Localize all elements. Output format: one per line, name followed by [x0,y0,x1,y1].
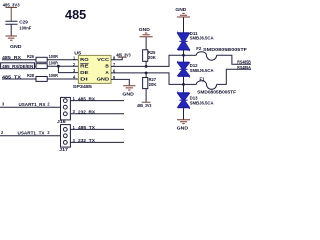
wire B line [111,55,184,66]
TVS diode D12 [177,55,213,84]
wire USART1_TX [0,135,61,137]
pin number 3 [73,68,76,73]
svg-text:J17: J17 [59,147,69,152]
svg-text:GND: GND [10,44,22,49]
svg-text:20K: 20K [148,55,156,60]
ground (top of diode chain, inverted) [175,7,190,32]
power port 485_3V3 (below R27) [137,102,152,108]
svg-text:SMBJ6.5CA: SMBJ6.5CA [190,35,214,40]
wire B to fuse [184,54,197,56]
svg-text:R26: R26 [27,54,35,59]
svg-text:A: A [105,70,108,75]
svg-text:RO: RO [80,57,89,62]
svg-text:485_3V3: 485_3V3 [137,103,152,108]
svg-text:485_3V3: 485_3V3 [116,52,131,57]
TVS diode D11 [177,31,213,56]
wire pin8 [111,57,122,59]
net label 485_TX (J17) [73,125,96,130]
fuse F2 [196,46,247,60]
wire row2 to pin2 [47,65,78,67]
wire port to R24 [35,65,37,67]
title 485 [65,7,86,22]
resistor R27 [143,73,157,102]
pin number 7 [113,62,116,67]
svg-text:SP3485: SP3485 [73,84,93,89]
pin number 6 [113,68,116,73]
pin number 8 [113,55,116,60]
net label 485_RX (J16) [73,96,96,101]
net label RS485B [237,60,251,65]
wire J17 pin3 to 232_TX [70,141,124,143]
junction node A/R27 [145,72,148,75]
wire row1 left [2,59,36,61]
junction node row2 [57,65,60,68]
net label 232_TX [73,138,96,143]
wire row3 to pin4 [47,78,78,80]
svg-text:SMD0805B005TF: SMD0805B005TF [197,90,237,95]
wire fuse F2 to RS485B [217,55,251,64]
power port 485_3V3 (pin 8) [116,52,131,57]
net label USART1_TX row [1,130,50,135]
wire J16 pin3 to 232_RX [70,113,124,115]
svg-text:USART1_RX: USART1_RX [19,102,46,107]
svg-text:U5: U5 [74,50,81,55]
svg-text:USART1_TX: USART1_TX [18,131,45,136]
wire pin5 to ground [111,79,129,85]
pin number 1 [73,55,76,60]
resistor R26 [27,54,58,62]
svg-text:232_RX: 232_RX [78,110,95,115]
wire A to fuse [184,83,197,85]
svg-text:GND: GND [122,91,134,96]
pin number 2 [73,62,76,67]
resistor R25 [143,50,156,67]
pin number 4 [73,75,76,80]
wire USART1_RX [0,106,61,108]
net label 232_RX [73,109,96,114]
fuse F1 [196,76,236,94]
svg-text:R28: R28 [27,73,35,78]
wire row1 to pin1 [47,59,78,61]
wire fuse F1 to RS485A [217,69,251,84]
svg-text:GND: GND [139,27,151,32]
svg-text:RE: RE [80,64,89,69]
resistor R24 [36,60,58,68]
svg-text:GND: GND [177,126,189,131]
svg-text:GND: GND [175,7,187,12]
svg-text:100R: 100R [49,54,58,59]
power port 485_3V3 (top left) [3,3,20,22]
ground (above R25, inverted) [139,27,153,50]
junction node B/R25 [145,65,148,68]
svg-text:GND: GND [97,77,109,82]
svg-text:485_RX: 485_RX [78,96,95,101]
wire J16 pin1 to 485_RX [70,100,124,102]
svg-text:485: 485 [65,7,86,22]
wire J17 pin1 to 485_TX [70,128,124,130]
svg-text:DI: DI [80,77,88,82]
svg-text:SMBJ6.5CA: SMBJ6.5CA [190,68,214,73]
connector J16 [57,97,71,124]
op-amp U5 designator [74,50,81,55]
svg-text:485_TX: 485_TX [78,125,95,130]
connector J17 [59,125,70,152]
svg-text:100R: 100R [49,73,58,78]
junction node A branch [182,83,185,86]
net label 485_TX [2,74,21,79]
svg-text:J16: J16 [57,119,67,124]
resistor R28 [27,73,58,81]
svg-text:232_TX: 232_TX [78,138,95,143]
svg-text:485_RX/DE/EN: 485_RX/DE/EN [2,64,33,69]
ground (pin 5) [122,86,135,97]
pin number 5 [113,75,116,80]
transceiver U5 SP3485 body [78,55,111,83]
net label RS485A [237,65,251,70]
svg-text:DE: DE [80,70,89,75]
port 485_RX/DE/EN [1,63,35,69]
svg-text:VCC: VCC [97,57,109,62]
net label USART1_RX row [2,102,50,107]
ground (below C29) [5,36,22,49]
TVS diode D13 [177,84,213,119]
wire row3 left [2,78,36,80]
net label 485_RX [2,55,21,60]
svg-text:B: B [105,64,108,69]
svg-text:SMD0805B005TF: SMD0805B005TF [203,47,248,52]
capacitor C29 [5,20,31,36]
junction node B branch [182,54,185,57]
value label SP3485 [73,84,93,89]
wire A line [111,73,184,85]
ground (bottom of diode chain) [177,120,190,131]
svg-text:F2: F2 [196,46,202,51]
wire junction down to pin3 [58,66,78,72]
svg-text:RS485A: RS485A [237,65,251,70]
svg-text:20K: 20K [149,82,157,87]
svg-text:F1: F1 [200,76,206,81]
svg-text:485_3V3: 485_3V3 [3,3,20,8]
svg-text:100nF: 100nF [19,26,31,31]
svg-text:100R: 100R [49,60,58,65]
svg-text:SMBJ6.5CA: SMBJ6.5CA [190,101,214,106]
svg-text:C29: C29 [19,20,28,25]
